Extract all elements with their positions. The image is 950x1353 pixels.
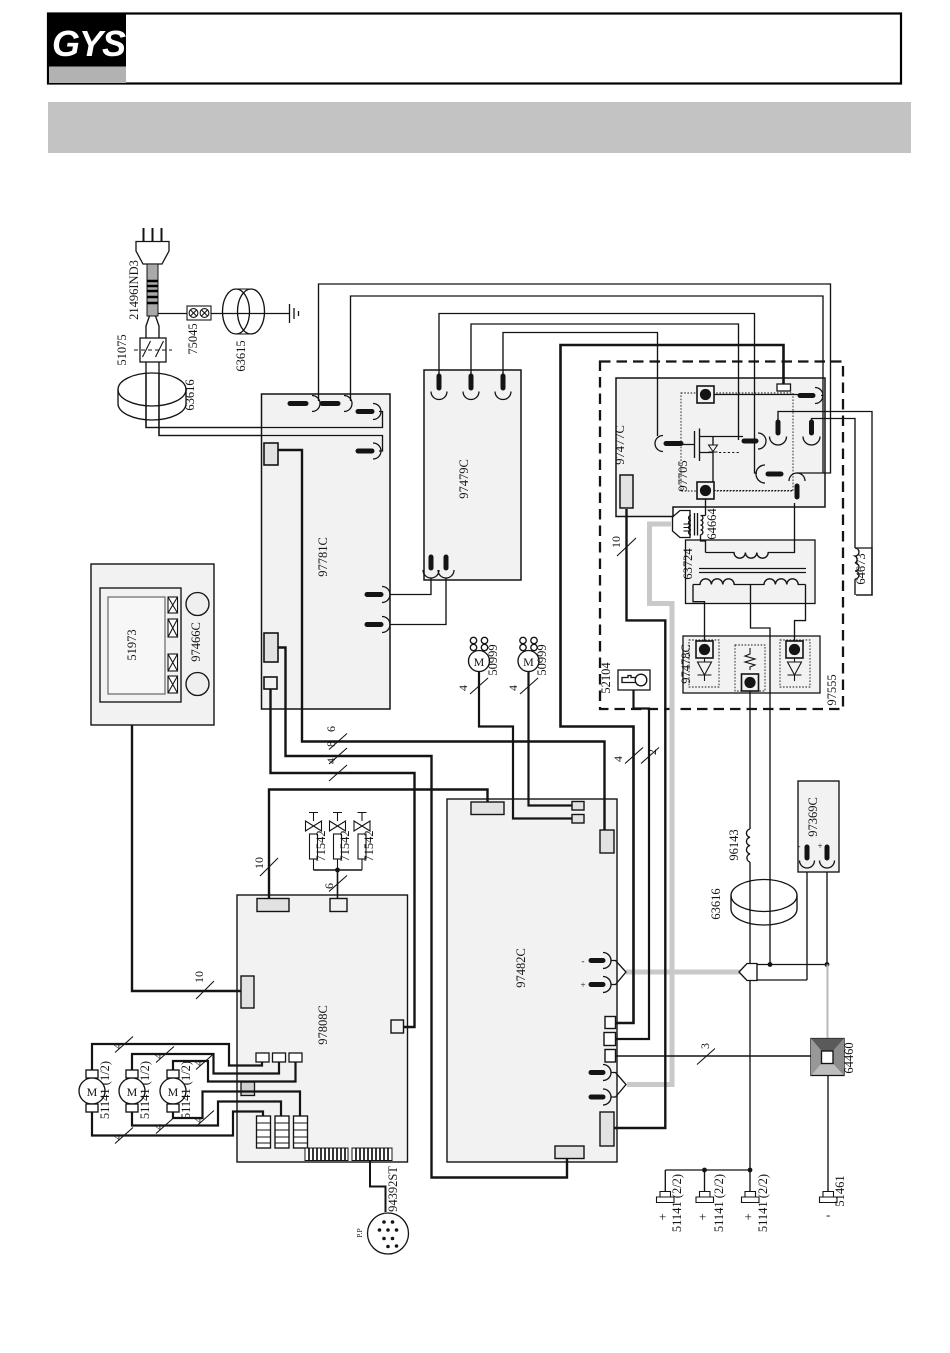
wire 3cond to earth clamp xyxy=(616,1055,812,1057)
wire F1 to 64673 bottom xyxy=(778,412,872,596)
wires 97369C down xyxy=(807,872,827,980)
slash 4 xyxy=(329,765,347,781)
secondary right lead to cell3 xyxy=(795,585,806,642)
terminal 51141c xyxy=(742,1192,760,1203)
transformer box 63724 xyxy=(686,540,816,604)
97781C left connectors xyxy=(264,443,278,465)
secondary centre tap down xyxy=(751,585,771,965)
HF transformer 64664 xyxy=(673,499,706,553)
motor M3 xyxy=(160,1070,186,1112)
board 97477C xyxy=(616,378,825,517)
slash 10 on 97477C wire xyxy=(617,538,636,556)
toroid 63616 output xyxy=(731,880,797,926)
svg-text:51141 (2/2): 51141 (2/2) xyxy=(670,1174,684,1232)
terminal pad on 97477C xyxy=(777,384,791,391)
svg-text:-: - xyxy=(582,956,585,966)
board 97781C xyxy=(262,394,391,709)
svg-text:64664: 64664 xyxy=(705,508,719,540)
slash 6 on valve wire xyxy=(329,876,347,892)
plug cable with stripes xyxy=(147,264,158,316)
plug body xyxy=(136,242,169,265)
fan A wire xyxy=(479,672,572,819)
svg-text:50999: 50999 xyxy=(486,644,500,675)
wire 4cond 97781C to 97808C xyxy=(271,689,415,1027)
MOSFET 97705 xyxy=(681,429,743,483)
faston B xyxy=(655,436,681,452)
valve V3 xyxy=(354,813,370,871)
wire 2cond from 52104 xyxy=(616,690,650,1039)
board 97808C xyxy=(237,895,408,1162)
svg-text:8: 8 xyxy=(324,741,338,747)
svg-text:97479C: 97479C xyxy=(457,459,471,499)
svg-text:97369C: 97369C xyxy=(806,797,820,837)
svg-text:51141 (2/2): 51141 (2/2) xyxy=(756,1174,770,1232)
slashes 4 motor M2 xyxy=(156,1047,174,1063)
svg-text:64460: 64460 xyxy=(842,1042,856,1073)
output fastons lower pair xyxy=(591,1065,611,1106)
earth clamp 64460 xyxy=(811,1039,844,1076)
plug 21496IND3 prongs xyxy=(144,228,162,241)
svg-text:51141 (1/2): 51141 (1/2) xyxy=(138,1061,152,1119)
board 97369C xyxy=(798,781,839,872)
cell3 terminal and diode xyxy=(786,641,803,681)
motor M1 wires xyxy=(92,1044,263,1136)
comb connector 2 xyxy=(352,1148,392,1161)
svg-text:4: 4 xyxy=(110,1134,124,1140)
lug output lines xyxy=(757,965,827,981)
svg-text:51075: 51075 xyxy=(115,334,129,365)
svg-text:4: 4 xyxy=(191,1117,205,1123)
GYS logo xyxy=(49,15,126,84)
svg-text:M: M xyxy=(474,655,485,669)
svg-text:50999: 50999 xyxy=(535,644,549,675)
svg-text:51461: 51461 xyxy=(833,1175,847,1206)
inductor 96143 xyxy=(746,829,750,862)
svg-text:M: M xyxy=(168,1085,179,1099)
svg-text:4: 4 xyxy=(151,1124,165,1130)
wire 10cond 97482C to 97808C tab xyxy=(269,790,488,900)
svg-text:71542: 71542 xyxy=(314,830,328,861)
svg-text:-: - xyxy=(798,841,801,851)
right edge connector xyxy=(391,1020,404,1033)
rail L2 f2 to faston A drop xyxy=(351,296,824,473)
svg-text:4: 4 xyxy=(191,1060,205,1066)
wire top square to faston A xyxy=(714,394,799,396)
svg-text:+: + xyxy=(745,1209,752,1224)
key switch 52104 xyxy=(618,670,650,690)
svg-text:51141 (1/2): 51141 (1/2) xyxy=(98,1061,112,1119)
slash 3 on clamp wire xyxy=(697,1049,715,1065)
mains wires L N toroid to 97781C fastons xyxy=(146,373,383,451)
bottom terminal square with dot xyxy=(697,482,714,499)
bottom centre connector xyxy=(555,1146,584,1159)
63724 primary winding xyxy=(706,503,795,558)
faston f6 on 97781C right xyxy=(367,617,390,633)
terminal 51141b xyxy=(696,1192,714,1203)
dotted box 97705 xyxy=(681,393,793,491)
svg-text:52104: 52104 xyxy=(599,662,613,694)
wire clamp to minus terminal xyxy=(827,1076,829,1193)
circular plug xyxy=(368,1213,409,1254)
97477C bottom connector xyxy=(620,475,633,508)
cell2 dotted xyxy=(735,645,765,691)
svg-text:97482C: 97482C xyxy=(514,948,528,988)
wires breaker to toroid xyxy=(146,362,159,373)
svg-text:M: M xyxy=(127,1085,138,1099)
faston E xyxy=(789,473,805,497)
mains wires cable to breaker xyxy=(146,316,159,338)
97479C bottom pins xyxy=(423,557,454,578)
gray square left edge xyxy=(241,1082,255,1096)
rail L1 f1 to right drop xyxy=(319,284,831,473)
thick supply wire to 97477C terminal and 97482C xyxy=(561,345,784,1023)
pin F2 with arc xyxy=(803,422,820,445)
svg-text:96143: 96143 xyxy=(727,829,741,860)
svg-text:4: 4 xyxy=(611,756,625,762)
slashes 4 motor M1 xyxy=(115,1037,133,1053)
wires f5 f6 to 97479C pins xyxy=(390,578,446,625)
svg-text:51141 (1/2): 51141 (1/2) xyxy=(179,1061,193,1119)
cell2 varistor and terminal xyxy=(742,648,759,691)
junction dots xyxy=(768,962,773,967)
svg-text:71542: 71542 xyxy=(362,830,376,861)
svg-text:10: 10 xyxy=(252,857,266,869)
fan motor A xyxy=(469,637,490,671)
faston f5 on 97781C right xyxy=(367,587,390,603)
top left connector xyxy=(471,802,504,815)
display knobs xyxy=(186,593,209,616)
inductor 64673 xyxy=(855,548,872,595)
97479C top pins xyxy=(431,376,511,400)
gray welding cable upper xyxy=(626,970,740,975)
svg-text:+: + xyxy=(817,841,822,851)
svg-text:94392ST: 94392ST xyxy=(386,1166,400,1212)
svg-text:-: - xyxy=(826,1207,830,1222)
toroid 63615 xyxy=(223,289,265,334)
63724 secondary windings xyxy=(693,579,806,585)
motor M3 wires xyxy=(173,1061,300,1118)
svg-text:4: 4 xyxy=(506,685,520,691)
svg-text:+: + xyxy=(580,980,585,990)
dotted link to 97705 edge xyxy=(714,490,793,492)
squares control right edge xyxy=(605,1017,616,1029)
svg-text:63616: 63616 xyxy=(709,888,723,919)
motor M1 xyxy=(79,1070,105,1112)
svg-text:+: + xyxy=(659,1209,666,1224)
valve bus to 97808C tab xyxy=(314,870,363,899)
slash 6 on wire to 97482C xyxy=(329,734,347,750)
toroid 63616 input xyxy=(118,373,186,420)
bottom right connector xyxy=(600,1112,614,1146)
valve V2 xyxy=(330,813,346,871)
display buttons xyxy=(168,597,178,693)
slash 10 on display wire xyxy=(196,981,214,999)
slashes 4 motor M3 xyxy=(196,1054,214,1070)
svg-text:M: M xyxy=(523,655,534,669)
plus bus xyxy=(665,1170,750,1192)
slash 4 on fan B xyxy=(520,678,538,694)
svg-text:+: + xyxy=(699,1209,706,1224)
svg-text:75045: 75045 xyxy=(186,323,200,354)
comb connector 1 xyxy=(305,1148,348,1161)
terminal block 75045 xyxy=(187,306,211,320)
faston f3 on 97781C xyxy=(358,404,381,420)
97369C fastons xyxy=(800,847,835,868)
fan B wire xyxy=(529,672,573,806)
rail pin1 to faston D xyxy=(439,314,757,474)
terminal 51141a xyxy=(657,1192,675,1203)
motor M2 wires xyxy=(132,1054,281,1126)
wire F2 to 64673 top xyxy=(812,419,856,549)
svg-text:51141 (2/2): 51141 (2/2) xyxy=(712,1174,726,1232)
earth wire xyxy=(158,313,287,315)
svg-text:63616: 63616 xyxy=(183,379,197,410)
right top connector xyxy=(600,830,614,853)
fan motor B xyxy=(518,637,539,671)
svg-text:21496IND3: 21496IND3 xyxy=(127,260,141,320)
svg-text:51973: 51973 xyxy=(125,629,139,660)
terminal 51461 minus xyxy=(820,1192,838,1203)
svg-text:63724: 63724 xyxy=(681,548,695,580)
breaker 51075 xyxy=(134,338,172,362)
svg-text:4: 4 xyxy=(151,1053,165,1059)
slash 2 on key wire xyxy=(641,748,659,764)
gray welding cable loop xyxy=(627,524,672,1085)
rail pin3 to faston B xyxy=(503,333,658,437)
output fastons upper pair xyxy=(591,953,611,993)
valve V1 xyxy=(306,813,322,871)
faston f2 on 97781C xyxy=(322,396,352,412)
top terminal square with dot xyxy=(697,386,714,403)
faston D xyxy=(756,465,781,483)
svg-text:10: 10 xyxy=(609,536,623,548)
chevron upper xyxy=(611,961,626,985)
svg-text:71542: 71542 xyxy=(338,830,352,861)
board 97479C xyxy=(424,370,521,580)
faston A xyxy=(800,388,823,404)
slash 8 xyxy=(329,748,347,764)
wire 10cond 97477C to 97482C xyxy=(615,509,666,1128)
secondary left lead to cell1 xyxy=(693,585,705,642)
cell1 terminal and diode xyxy=(696,641,713,681)
slash 4 on fan A xyxy=(470,678,488,694)
wire cell2 to plus bus xyxy=(749,691,751,1170)
wire 10cond display to 97808C xyxy=(132,725,241,991)
top tab 2 xyxy=(330,899,347,912)
svg-text:3: 3 xyxy=(698,1043,712,1049)
rail pin2 to faston C xyxy=(471,324,739,440)
svg-text:4: 4 xyxy=(110,1043,124,1049)
svg-text:2: 2 xyxy=(645,749,659,755)
rectifier board 97478C xyxy=(683,636,820,693)
wire 6cond 97781C to 97482C xyxy=(278,450,605,830)
cell3 dotted xyxy=(780,640,810,687)
svg-text:97808C: 97808C xyxy=(316,1005,330,1045)
svg-text:64673: 64673 xyxy=(854,553,868,584)
display module 97466C xyxy=(91,564,214,725)
svg-text:6: 6 xyxy=(322,883,336,889)
svg-text:P.P: P.P xyxy=(355,1228,364,1237)
top tab 1 xyxy=(257,899,289,912)
svg-text:6: 6 xyxy=(324,726,338,732)
svg-text:GYS: GYS xyxy=(52,23,126,64)
connector strips xyxy=(257,1116,308,1148)
wire comb to plug xyxy=(370,1161,386,1213)
cable lug chevron near 63616 xyxy=(739,964,757,981)
slash 4 on thick supply xyxy=(625,748,643,764)
svg-text:97705: 97705 xyxy=(676,460,690,491)
left edge connector xyxy=(241,976,254,1008)
svg-text:4: 4 xyxy=(456,685,470,691)
svg-text:97466C: 97466C xyxy=(189,622,203,662)
faston f4 on 97781C xyxy=(358,443,381,459)
svg-text:97478C: 97478C xyxy=(679,644,693,684)
faston f1 on 97781C xyxy=(290,396,320,412)
mid tabs xyxy=(256,1053,269,1062)
motor M2 xyxy=(119,1070,145,1112)
svg-text:10: 10 xyxy=(192,971,206,983)
title banner xyxy=(48,102,911,153)
ground symbol xyxy=(287,304,299,323)
cell1 dotted xyxy=(689,640,719,687)
wire 8cond 97781C to 97482C bottom xyxy=(278,648,567,1178)
pin F1 with arc xyxy=(770,422,787,445)
mains wires over board to f3 f4 xyxy=(146,373,383,451)
header frame xyxy=(48,14,901,84)
chevron lower xyxy=(611,1073,626,1098)
svg-text:97477C: 97477C xyxy=(613,425,627,465)
squares fan wires xyxy=(572,802,584,811)
svg-text:97555: 97555 xyxy=(825,674,839,705)
svg-text:M: M xyxy=(87,1085,98,1099)
faston C xyxy=(744,433,766,449)
slash 10 on 97482C-97808C wire xyxy=(260,858,278,876)
faston A stub xyxy=(821,395,823,397)
svg-text:63615: 63615 xyxy=(234,340,248,371)
gray wire to clamp xyxy=(827,965,829,1041)
dashed enclosure 97555 xyxy=(600,362,843,710)
63724 core xyxy=(699,569,806,573)
svg-text:97781C: 97781C xyxy=(316,537,330,577)
svg-text:4: 4 xyxy=(324,758,338,764)
board 97482C xyxy=(447,799,617,1162)
